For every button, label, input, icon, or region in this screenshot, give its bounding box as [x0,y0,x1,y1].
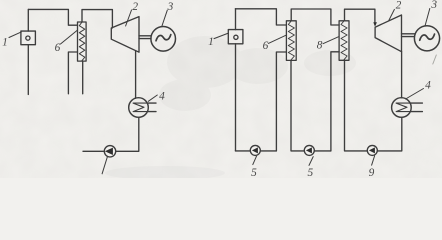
svg-text:3: 3 [167,1,174,13]
svg-text:3: 3 [430,0,437,11]
svg-text:6: 6 [263,40,269,52]
svg-text:9: 9 [369,167,375,178]
svg-text:4: 4 [159,90,165,102]
svg-text:5: 5 [307,167,313,178]
svg-text:2: 2 [396,0,402,12]
svg-text:4: 4 [425,80,431,92]
svg-text:1: 1 [208,36,214,48]
svg-text:6: 6 [55,42,61,54]
svg-text:5: 5 [251,167,257,178]
svg-text:1: 1 [2,37,8,49]
svg-text:8: 8 [317,39,323,51]
svg-text:2: 2 [132,1,138,13]
